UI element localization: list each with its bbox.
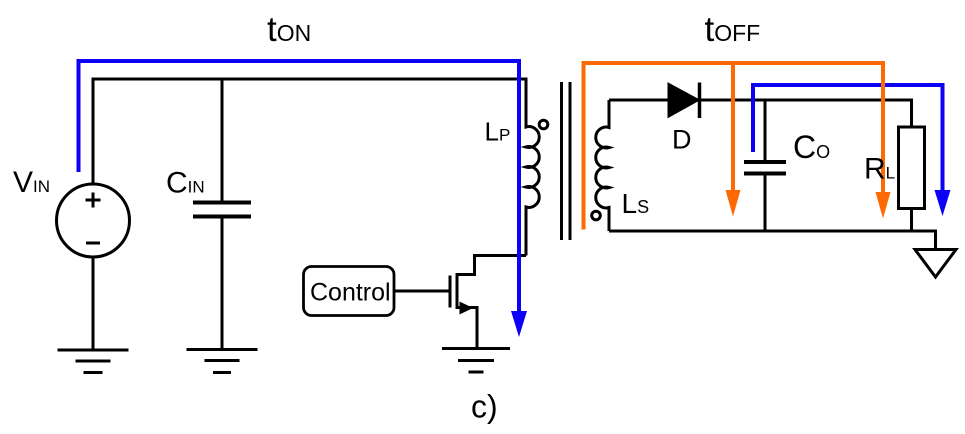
polarity dot secondary: [592, 211, 601, 220]
arrow tON output blue head: [935, 190, 951, 216]
transformer core: [562, 82, 571, 240]
control block U1: [304, 267, 395, 316]
wire top primary rail: [93, 78, 528, 81]
source VIN: [57, 184, 130, 257]
svg-text:tON: tON: [267, 10, 311, 49]
capacitor CO: [744, 162, 786, 174]
svg-text:Control: Control: [310, 279, 391, 307]
current path tON output blue: [753, 85, 943, 194]
arrow tON blue head: [511, 311, 527, 337]
wire CO bottom lead: [764, 174, 767, 232]
wire CIN top lead: [221, 79, 224, 203]
svg-text:CO: CO: [793, 129, 830, 165]
wire VIN bottom lead: [92, 257, 95, 350]
current path tON blue: [79, 61, 520, 315]
wire diode to output: [700, 99, 912, 102]
svg-text:LS: LS: [622, 188, 650, 219]
polarity dot primary: [539, 120, 548, 129]
transistor Q1 gate bar: [449, 276, 452, 308]
wire control to gate: [394, 290, 449, 293]
arrow tOFF orange head right: [876, 192, 891, 219]
wire CO top lead: [764, 100, 767, 162]
svg-text:LP: LP: [485, 117, 511, 147]
svg-text:tOFF: tOFF: [705, 10, 761, 49]
svg-text:RL: RL: [864, 153, 895, 186]
VIN plus sign: [86, 193, 101, 208]
current path tOFF orange: [584, 63, 884, 230]
inductor LP primary winding: [526, 79, 539, 256]
arrow tOFF orange head mid: [726, 190, 741, 217]
wire secondary bottom rail: [609, 231, 936, 250]
wire source path: [457, 308, 477, 349]
svg-text:c): c): [471, 389, 498, 425]
svg-text:D: D: [672, 125, 692, 155]
capacitor CIN: [193, 203, 251, 217]
resistor RL: [899, 127, 925, 209]
diode D triangle: [668, 83, 700, 118]
svg-text:VIN: VIN: [13, 166, 50, 199]
ground output triangle: [915, 250, 956, 278]
wire secondary top to diode: [609, 99, 668, 102]
wire VIN top lead: [92, 78, 95, 185]
wire RL top lead: [910, 99, 913, 128]
diode D cathode bar: [698, 83, 702, 119]
ground VIN: [58, 350, 129, 373]
transistor Q1 channel bar: [456, 273, 459, 309]
wire RL bottom lead: [910, 209, 913, 232]
VIN minus sign: [86, 242, 100, 245]
ground Q1: [442, 349, 510, 373]
inductor LS secondary winding: [596, 100, 609, 231]
svg-text:CIN: CIN: [166, 167, 205, 200]
transistor Q1 source arrow: [460, 302, 474, 315]
wire drain path: [457, 256, 526, 275]
wire CIN bottom lead: [221, 217, 224, 350]
ground CIN: [187, 350, 258, 373]
